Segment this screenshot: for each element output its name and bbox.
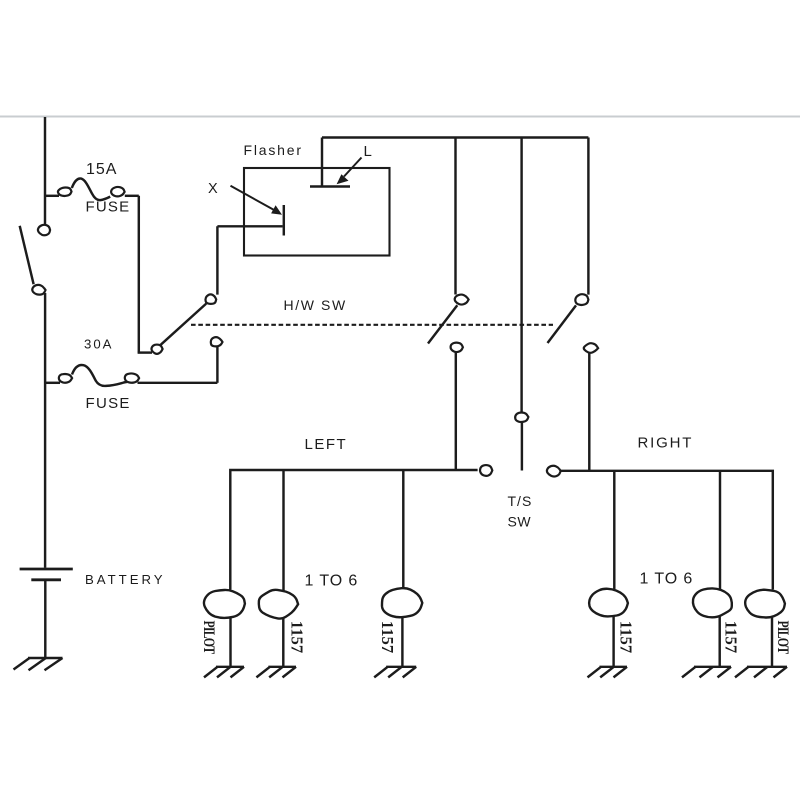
svg-text:X: X	[208, 181, 218, 197]
svg-text:30A: 30A	[84, 337, 113, 352]
wire: switch to battery	[44, 293, 46, 568]
RIGHT bus start terminal	[547, 466, 561, 477]
switch S1 arm (open knife switch)	[20, 226, 34, 284]
fuse F2 right terminal	[125, 373, 139, 382]
ground (lamp PILOT right)	[735, 667, 787, 678]
wire: lamp PILOT right to ground	[771, 617, 773, 667]
wire: top bus to T/S common	[520, 138, 522, 412]
svg-text:RIGHT: RIGHT	[638, 434, 694, 451]
svg-text:1 TO 6: 1 TO 6	[640, 571, 694, 588]
wire: H/W to flasher X	[216, 226, 218, 294]
svg-text:BATTERY: BATTERY	[85, 572, 166, 587]
svg-text:T/S: T/S	[508, 493, 533, 509]
wire: lamp 1157 left-2 to ground	[401, 617, 403, 667]
lamp 1157 left-1 bulb	[259, 590, 298, 619]
wire: lamp 1157 right-2 to ground	[718, 616, 720, 666]
ground (battery)	[14, 658, 63, 670]
svg-text:PILOT: PILOT	[774, 621, 791, 654]
wire: top bus	[322, 136, 588, 138]
ground (lamp 1157 right-2)	[682, 667, 731, 678]
LEFT bus end terminal	[480, 465, 492, 476]
fuse F1 left terminal	[58, 188, 72, 196]
svg-text:FUSE: FUSE	[86, 395, 131, 412]
lamp 1157 left-2 bulb	[382, 588, 422, 617]
flasher X terminal bar	[283, 205, 285, 236]
svg-text:1157: 1157	[378, 621, 397, 653]
svg-text:Flasher: Flasher	[244, 142, 303, 158]
wire: horizontal into flasher X	[217, 225, 282, 227]
lamp 1157 right-1 bulb	[589, 589, 628, 617]
left T/S lower terminal	[451, 343, 463, 352]
wire: left T/S to LEFT bus	[455, 352, 457, 470]
svg-text:1157: 1157	[287, 621, 306, 653]
wire: right T/S to RIGHT bus	[588, 353, 590, 471]
H/W switch upper terminal	[205, 294, 216, 304]
ground (lamp 1157 left-2)	[374, 667, 416, 678]
fuse F1 right terminal	[111, 187, 124, 196]
svg-text:15A: 15A	[86, 161, 117, 178]
svg-text:H/W SW: H/W SW	[284, 297, 347, 313]
switch S1 terminal (top)	[38, 225, 50, 235]
ground (lamp PILOT left)	[204, 667, 244, 678]
svg-text:LEFT: LEFT	[305, 436, 348, 453]
H/W switch lower contact	[211, 337, 223, 346]
lamp PILOT left bulb	[204, 590, 245, 618]
ground (lamp 1157 left-1)	[256, 667, 296, 678]
right T/S upper terminal	[575, 294, 588, 305]
battery B1 long plate	[20, 568, 73, 571]
wire: 30A fuse output	[138, 382, 218, 384]
wire: T/S common pole (free end)	[521, 422, 523, 470]
right T/S lower terminal	[584, 343, 598, 353]
lamp 1157 right-2 bulb	[693, 588, 732, 617]
svg-text:1157: 1157	[616, 621, 635, 653]
wire: riser to H/W contact	[216, 347, 218, 383]
wire: tap to 30A fuse	[45, 382, 60, 384]
left T/S switch arm	[428, 305, 457, 343]
svg-text:FUSE: FUSE	[86, 198, 131, 215]
H/W switch arm	[161, 304, 206, 345]
right T/S switch arm	[548, 305, 577, 343]
wire: bus drop to lamp 1157 right-1	[613, 471, 615, 590]
wire: riser to H/W switch	[138, 196, 140, 353]
top separator line	[0, 116, 800, 118]
svg-text:PILOT: PILOT	[200, 621, 217, 654]
wire: bus drop to lamp 1157 left-1	[282, 470, 284, 591]
svg-text:SW: SW	[508, 513, 532, 529]
flasher L terminal bar	[310, 185, 350, 187]
fuse F2 element	[72, 365, 127, 386]
arrow to X terminal	[231, 186, 283, 215]
left T/S upper terminal	[455, 295, 469, 305]
wire: top bus to left T/S switch	[454, 138, 456, 295]
wire: 15A fuse output	[125, 195, 139, 197]
lamp PILOT right bulb	[745, 590, 785, 618]
T/S common terminal	[515, 413, 528, 423]
switch S1 terminal (bottom)	[32, 285, 45, 295]
LEFT bus wire	[230, 470, 477, 590]
wire: battery feed from top	[44, 117, 46, 225]
wire: lamp 1157 left-1 to ground	[282, 618, 284, 667]
H/W switch pole terminal	[151, 345, 162, 354]
RIGHT bus wire	[561, 471, 773, 590]
wire: top bus right end down	[587, 138, 589, 295]
wire: bus drop to lamp 1157 left-2	[402, 470, 404, 589]
wire: battery to ground	[44, 581, 46, 658]
battery B1 short plate	[31, 578, 61, 581]
H/W SW gang dashed line	[191, 324, 553, 326]
wire: lamp PILOT left to ground	[229, 617, 231, 666]
fuse F1 element	[72, 178, 110, 200]
wire: lamp 1157 right-1 to ground	[612, 616, 614, 666]
wire: bus drop to lamp 1157 right-2	[719, 471, 721, 589]
svg-text:1 TO 6: 1 TO 6	[305, 573, 359, 590]
arrow to L terminal	[337, 158, 362, 185]
wire: tap to 15A fuse	[45, 195, 59, 197]
fuse F2 left terminal	[59, 374, 72, 383]
ground (lamp 1157 right-1)	[588, 667, 628, 678]
svg-text:1157: 1157	[721, 621, 740, 653]
flasher box U1	[244, 168, 390, 256]
wire: L riser to top bus	[321, 138, 323, 186]
svg-text:L: L	[364, 143, 372, 160]
wire: to H/W switch pole	[138, 351, 152, 353]
